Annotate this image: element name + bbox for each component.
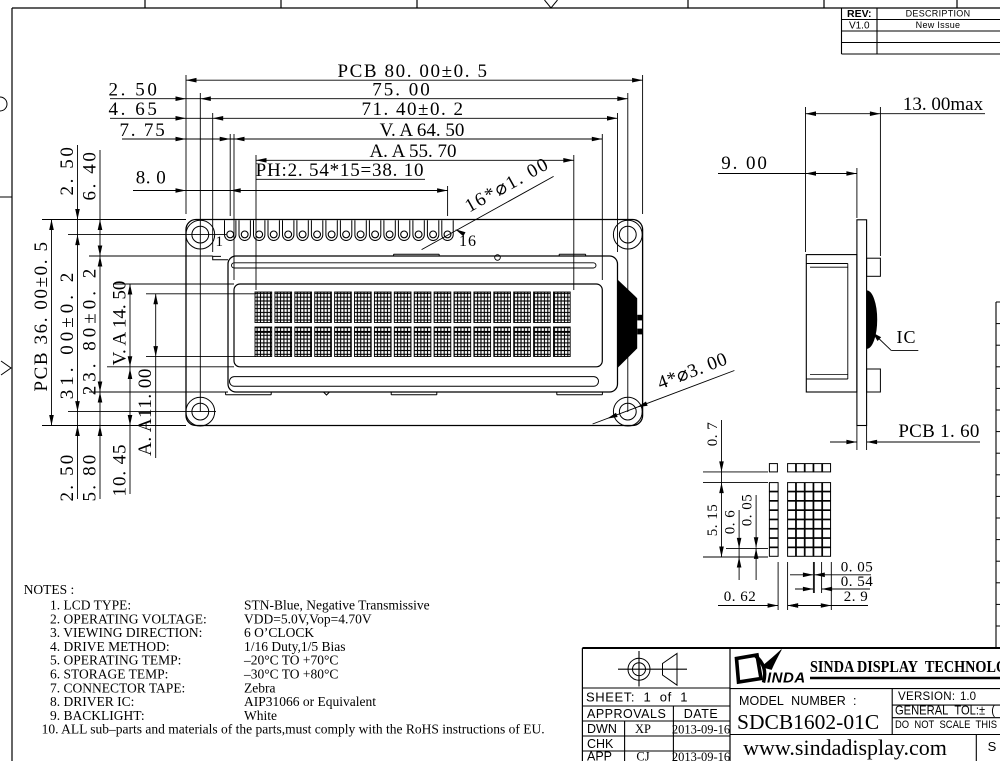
svg-text:V. A 14. 50: V. A 14. 50 [110, 281, 131, 366]
svg-text:S: S [988, 739, 997, 754]
svg-text:6 O’CLOCK: 6 O’CLOCK [244, 625, 314, 640]
svg-text:2. 9: 2. 9 [844, 589, 869, 605]
svg-text:9. 00: 9. 00 [721, 153, 769, 174]
svg-text:1: 1 [216, 234, 224, 250]
svg-text:0. 6: 0. 6 [723, 510, 739, 535]
svg-text:CJ: CJ [636, 750, 649, 761]
svg-text:5. 80: 5. 80 [80, 453, 101, 502]
svg-text:0. 05: 0. 05 [740, 494, 756, 527]
svg-text:PH:2. 54*15=38. 10: PH:2. 54*15=38. 10 [256, 160, 425, 181]
svg-text:7. 75: 7. 75 [120, 120, 167, 141]
svg-text:MODEL NUMBER :: MODEL NUMBER : [739, 694, 857, 708]
svg-text:0. 7: 0. 7 [705, 422, 721, 447]
svg-text:www.sindadisplay.com: www.sindadisplay.com [743, 735, 947, 760]
svg-text:1. LCD TYPE:: 1. LCD TYPE: [50, 598, 131, 613]
svg-text:V. A 64. 50: V. A 64. 50 [380, 120, 465, 141]
svg-text:8. 0: 8. 0 [136, 168, 167, 189]
svg-text:0. 54: 0. 54 [841, 574, 874, 590]
svg-text:6. 40: 6. 40 [80, 150, 101, 201]
svg-text:3. VIEWING DIRECTION:: 3. VIEWING DIRECTION: [50, 625, 202, 640]
svg-text:5. OPERATING TEMP:: 5. OPERATING TEMP: [50, 653, 181, 668]
svg-text:VERSION:: VERSION: [898, 691, 955, 703]
svg-text:2. 50: 2. 50 [109, 80, 160, 101]
svg-text:AIP31066 or Equivalent: AIP31066 or Equivalent [244, 694, 376, 709]
svg-text:2. OPERATING VOLTAGE:: 2. OPERATING VOLTAGE: [50, 611, 207, 626]
svg-text:DATE: DATE [684, 707, 718, 721]
svg-text:4. 65: 4. 65 [109, 99, 160, 120]
svg-text:8. DRIVER IC:: 8. DRIVER IC: [50, 694, 134, 709]
svg-text:0. 62: 0. 62 [724, 589, 757, 605]
svg-text:6. STORAGE TEMP:: 6. STORAGE TEMP: [50, 667, 168, 682]
svg-text:PCB 1. 60: PCB 1. 60 [898, 421, 979, 442]
svg-text:INDA: INDA [767, 670, 806, 687]
svg-text:10. 45: 10. 45 [110, 444, 131, 497]
svg-text:IC: IC [897, 327, 917, 347]
svg-text:31. 00±0. 2: 31. 00±0. 2 [57, 269, 78, 399]
svg-text:SINDA DISPLAY TECHNOLO: SINDA DISPLAY TECHNOLO [810, 657, 1000, 676]
svg-text:V1.0: V1.0 [849, 20, 870, 31]
svg-text:A. A11. 00: A. A11. 00 [135, 368, 156, 456]
svg-text:4. DRIVE METHOD:: 4. DRIVE METHOD: [50, 639, 170, 654]
svg-text:XP: XP [635, 722, 651, 736]
svg-text:1.0: 1.0 [960, 691, 976, 703]
svg-text:2013-09-16: 2013-09-16 [672, 750, 730, 761]
svg-text:A. A 55. 70: A. A 55. 70 [369, 141, 456, 162]
svg-text:–30°C TO +80°C: –30°C TO +80°C [243, 667, 338, 682]
svg-text:APP: APP [587, 750, 612, 761]
svg-text:2. 50: 2. 50 [57, 453, 78, 502]
svg-text:VDD=5.0V,Vop=4.70V: VDD=5.0V,Vop=4.70V [244, 611, 372, 626]
svg-text:New Issue: New Issue [916, 20, 961, 30]
svg-text:9. BACKLIGHT:: 9. BACKLIGHT: [50, 708, 145, 723]
svg-text:REV:: REV: [847, 8, 872, 20]
svg-text:PCB 36. 00±0. 5: PCB 36. 00±0. 5 [31, 240, 52, 391]
svg-text:7. CONNECTOR TAPE:: 7. CONNECTOR TAPE: [50, 680, 185, 695]
svg-text:0. 05: 0. 05 [841, 560, 874, 576]
svg-text:1/16 Duty,1/5 Bias: 1/16 Duty,1/5 Bias [244, 639, 346, 654]
svg-text:71. 40±0. 2: 71. 40±0. 2 [362, 99, 465, 120]
svg-text:–20°C TO +70°C: –20°C TO +70°C [243, 653, 338, 668]
svg-text:2. 50: 2. 50 [57, 145, 78, 196]
svg-text:APPROVALS: APPROVALS [587, 707, 666, 721]
svg-text:GENERAL TOL:± (: GENERAL TOL:± ( [895, 704, 996, 718]
svg-text:DESCRIPTION: DESCRIPTION [906, 9, 971, 19]
svg-text:DO NOT SCALE THIS: DO NOT SCALE THIS [895, 719, 997, 731]
svg-text:2013-09-16: 2013-09-16 [672, 723, 730, 737]
svg-text:SDCB1602-01C: SDCB1602-01C [737, 710, 879, 734]
svg-text:SHEET: 1 of 1: SHEET: 1 of 1 [586, 690, 688, 705]
svg-text:5. 15: 5. 15 [705, 504, 721, 537]
svg-text:DWN: DWN [587, 722, 617, 736]
svg-text:Zebra: Zebra [244, 680, 275, 695]
svg-text:16: 16 [459, 233, 477, 250]
svg-text:10. ALL sub–parts and material: 10. ALL sub–parts and materials of the p… [42, 722, 545, 737]
svg-text:23. 80±0. 2: 23. 80±0. 2 [80, 265, 101, 395]
svg-text:NOTES :: NOTES : [24, 582, 75, 597]
svg-text:White: White [244, 708, 277, 723]
svg-text:STN-Blue, Negative Transmissiv: STN-Blue, Negative Transmissive [244, 598, 430, 613]
svg-text:75. 00: 75. 00 [372, 80, 432, 101]
svg-text:13. 00max: 13. 00max [903, 94, 984, 115]
